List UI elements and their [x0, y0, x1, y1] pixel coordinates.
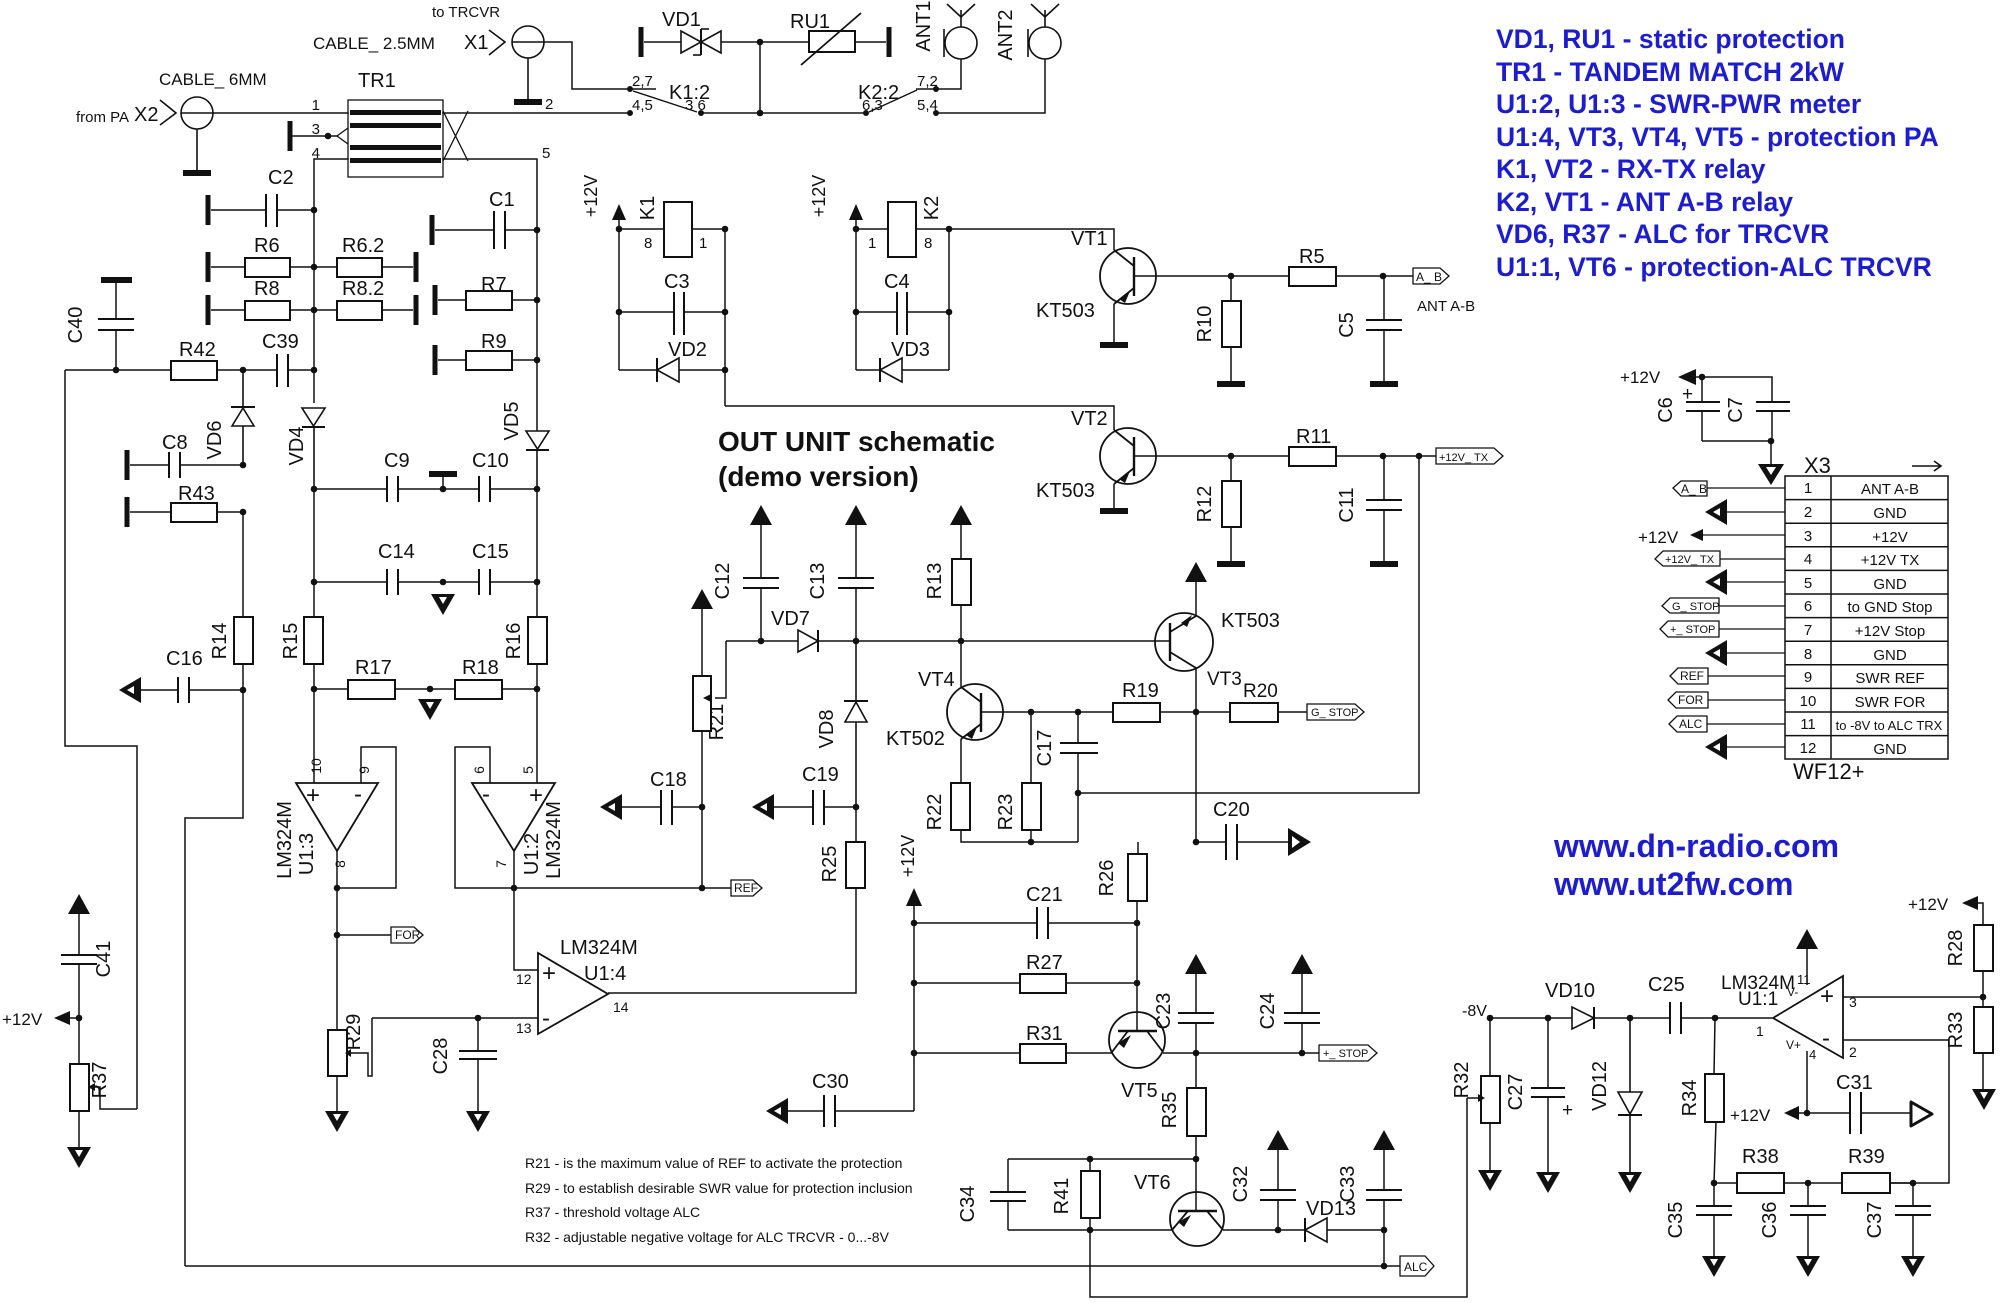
wire left rail down [65, 370, 137, 1109]
svg-text:U1:2: U1:2 [521, 833, 543, 875]
wire VT6 emitter to R32 wiper [1090, 1098, 1467, 1297]
svg-text:+_ STOP: +_ STOP [1670, 624, 1715, 636]
svg-text:SWR FOR: SWR FOR [1855, 694, 1926, 711]
wire pin 4 down [1806, 1051, 1808, 1113]
svg-text:C19: C19 [802, 764, 839, 786]
svg-text:9: 9 [356, 766, 372, 774]
svg-text:R26: R26 [1096, 860, 1118, 897]
svg-text:8: 8 [1804, 646, 1812, 663]
svg-text:C12: C12 [712, 563, 734, 600]
svg-text:U1:3: U1:3 [296, 833, 318, 875]
svg-text:R16: R16 [503, 623, 525, 660]
svg-text:R13: R13 [924, 563, 946, 600]
svg-text:to TRCVR: to TRCVR [432, 4, 500, 21]
svg-text:R25: R25 [819, 846, 841, 883]
svg-text:7: 7 [1804, 622, 1812, 639]
wire bottom ALC line [185, 1265, 1400, 1267]
svg-text:CABLE_ 6MM: CABLE_ 6MM [159, 70, 267, 89]
svg-text:KT503: KT503 [1221, 610, 1280, 632]
svg-text:R34: R34 [1679, 1080, 1701, 1117]
svg-text:R10: R10 [1194, 306, 1216, 343]
svg-text:R39: R39 [1848, 1146, 1885, 1168]
grounded stub between C9 C10 [429, 471, 457, 477]
svg-text:-: - [354, 781, 362, 808]
svg-text:+12V: +12V [809, 175, 829, 218]
svg-text:14: 14 [613, 999, 629, 1015]
node TR1 pin3 [325, 133, 332, 140]
flag G_STOP at X3 [1662, 598, 1719, 613]
svg-text:VD12: VD12 [1589, 1061, 1611, 1111]
flag FOR at X3 [1668, 692, 1708, 708]
wire pin2 feedback [1843, 1040, 1949, 1183]
svg-text:C2: C2 [268, 167, 294, 189]
output arrow right of C31 [1911, 1102, 1932, 1126]
wire pin4 rail down [313, 210, 315, 403]
svg-text:C40: C40 [65, 307, 87, 344]
wire X2 to TR1 pin1 [213, 112, 348, 114]
svg-text:ANT A-B: ANT A-B [1861, 481, 1919, 498]
flag ALC [1400, 1256, 1434, 1276]
svg-text:9: 9 [1804, 669, 1812, 686]
svg-text:V-: V- [1787, 985, 1798, 999]
main comparator line [726, 640, 798, 642]
flag REF [731, 880, 762, 896]
svg-text:C15: C15 [472, 541, 509, 563]
wire TR1 pin4 down rail [314, 159, 348, 210]
svg-text:to GND Stop: to GND Stop [1847, 599, 1932, 616]
ground arrow X3 pin12 [1705, 734, 1727, 760]
flag ALC at X3 [1669, 716, 1707, 732]
svg-text:R19: R19 [1122, 680, 1159, 702]
svg-text:TR1: TR1 [358, 70, 396, 92]
svg-text:www.ut2fw.com: www.ut2fw.com [1553, 866, 1793, 902]
svg-text:C30: C30 [812, 1071, 849, 1093]
svg-text:C25: C25 [1648, 974, 1685, 996]
ground arrow below R32 [1478, 1170, 1502, 1191]
svg-text:A_ B: A_ B [1681, 482, 1707, 496]
svg-text:R37 - threshold voltage ALC: R37 - threshold voltage ALC [525, 1204, 700, 1220]
svg-text:VT4: VT4 [918, 669, 955, 691]
flag +_STOP [1319, 1045, 1377, 1061]
power arrow at pin 11 [1796, 929, 1818, 949]
svg-text:2,7: 2,7 [632, 73, 653, 90]
wire rail R43 to R14 [242, 512, 244, 617]
flag FOR [334, 932, 341, 939]
ground arrow below C28 [466, 1111, 490, 1132]
svg-text:+12V: +12V [1872, 529, 1907, 546]
svg-text:12: 12 [1800, 740, 1817, 757]
svg-text:R8.2: R8.2 [342, 278, 384, 300]
ground arrow below R29 [325, 1111, 349, 1132]
svg-text:R42: R42 [179, 339, 216, 361]
svg-text:+12V: +12V [1908, 895, 1949, 914]
svg-text:+: + [542, 960, 556, 987]
svg-text:4,5: 4,5 [632, 97, 653, 114]
svg-text:C41: C41 [93, 941, 115, 978]
svg-text:3: 3 [312, 121, 320, 138]
svg-text:KT502: KT502 [886, 728, 945, 750]
svg-text:4: 4 [1809, 1047, 1816, 1062]
svg-text:8: 8 [644, 235, 652, 252]
svg-text:5: 5 [542, 145, 550, 162]
wire VT3 node down to C20 [1195, 712, 1197, 842]
ground arrow above X3 [1758, 464, 1784, 485]
flag REF at X3 [1670, 668, 1708, 684]
svg-text:X1: X1 [464, 32, 488, 54]
wire -8V line [1490, 1017, 1572, 1019]
svg-text:C7: C7 [1725, 397, 1747, 423]
svg-text:KT503: KT503 [1036, 300, 1095, 322]
flag +_STOP at X3 [1660, 621, 1719, 637]
svg-text:C23: C23 [1153, 993, 1175, 1030]
svg-text:C16: C16 [166, 648, 203, 670]
svg-text:VD2: VD2 [668, 339, 707, 361]
svg-text:+12V: +12V [1620, 368, 1661, 387]
wire K1 node to VT2 [725, 406, 1114, 430]
svg-text:10: 10 [1800, 693, 1817, 710]
svg-text:+12V: +12V [1638, 528, 1679, 547]
svg-text:C6: C6 [1655, 397, 1677, 423]
svg-text:R6: R6 [254, 235, 280, 257]
svg-text:R38: R38 [1742, 1146, 1779, 1168]
svg-text:R43: R43 [178, 483, 215, 505]
svg-text:R32 - adjustable negative volt: R32 - adjustable negative voltage for AL… [525, 1229, 890, 1245]
svg-text:C10: C10 [472, 450, 509, 472]
svg-text:+: + [1562, 1100, 1573, 1121]
svg-text:LM324M: LM324M [274, 801, 296, 879]
svg-text:VT1: VT1 [1071, 228, 1108, 250]
svg-text:R8: R8 [254, 278, 280, 300]
svg-text:C8: C8 [162, 432, 188, 454]
svg-text:ANT1: ANT1 [913, 0, 935, 51]
svg-text:C32: C32 [1230, 1166, 1252, 1203]
svg-text:R12: R12 [1194, 486, 1216, 523]
svg-text:5: 5 [520, 766, 536, 774]
ground arrow X3 pin2 [1705, 499, 1727, 525]
svg-text:R11: R11 [1296, 426, 1331, 448]
svg-text:VD4: VD4 [286, 427, 308, 466]
svg-text:+12V: +12V [581, 175, 601, 218]
svg-text:-8V: -8V [1462, 1003, 1487, 1020]
svg-text:C39: C39 [262, 331, 299, 353]
wire R14 rail to bottom [185, 690, 243, 1266]
svg-text:ANT A-B: ANT A-B [1417, 298, 1475, 315]
svg-text:+12V: +12V [2, 1010, 43, 1029]
svg-text:C28: C28 [430, 1038, 452, 1075]
svg-text:VD7: VD7 [771, 608, 810, 630]
wire K1:2 to K2:2 [701, 112, 866, 114]
svg-text:R14: R14 [209, 623, 231, 660]
svg-text:R21 - is the maximum value of: R21 - is the maximum value of REF to act… [525, 1155, 902, 1171]
svg-text:VD5: VD5 [501, 402, 523, 441]
svg-text:VD1, RU1 - static protection: VD1, RU1 - static protection [1496, 24, 1845, 54]
svg-text:A_ B: A_ B [1416, 270, 1442, 284]
svg-text:1: 1 [699, 235, 707, 252]
svg-text:R29 - to establish desirable S: R29 - to establish desirable SWR value f… [525, 1180, 913, 1196]
svg-text:6: 6 [471, 766, 487, 774]
ground at VT1 [1100, 342, 1128, 348]
wire VD1 node down [759, 42, 761, 113]
svg-text:R31: R31 [1026, 1023, 1063, 1045]
svg-text:C9: C9 [384, 450, 410, 472]
svg-text:(demo version): (demo version) [718, 461, 919, 492]
power arrow above C41 [68, 894, 90, 914]
svg-text:K1: K1 [637, 196, 659, 220]
svg-text:2: 2 [1849, 1044, 1857, 1060]
wire U1:2 out to pin12 [372, 888, 538, 1018]
svg-text:U1:4, VT3, VT4, VT5 - protecti: U1:4, VT3, VT4, VT5 - protection PA [1496, 122, 1939, 152]
svg-text:R18: R18 [462, 657, 499, 679]
svg-text:KT503: KT503 [1036, 480, 1095, 502]
wire VT2 base [1156, 455, 1289, 457]
svg-text:VT3: VT3 [1207, 669, 1242, 690]
svg-text:+: + [1820, 983, 1834, 1010]
connector X1 [489, 26, 544, 99]
svg-text:VD10: VD10 [1545, 980, 1595, 1002]
svg-text:1: 1 [1756, 1023, 1764, 1039]
svg-text:C17: C17 [1034, 730, 1056, 767]
flag +12V_TX [1436, 448, 1503, 464]
svg-text:VT5: VT5 [1121, 1080, 1158, 1102]
svg-text:C27: C27 [1505, 1074, 1527, 1111]
ground arrow below R33 [1972, 1089, 1996, 1110]
ground at X1 [514, 99, 542, 105]
notes text [525, 1155, 913, 1245]
svg-text:R28: R28 [1945, 930, 1967, 967]
svg-text:C34: C34 [957, 1186, 979, 1223]
svg-text:+: + [529, 782, 543, 809]
svg-text:+12V_ TX: +12V_ TX [1665, 554, 1715, 566]
svg-text:C11: C11 [1336, 487, 1358, 522]
svg-text:C20: C20 [1213, 799, 1250, 821]
svg-text:GND: GND [1873, 576, 1907, 593]
svg-text:REF: REF [734, 881, 758, 895]
svg-text:1: 1 [312, 97, 320, 114]
svg-text:VT6: VT6 [1134, 1172, 1171, 1194]
svg-text:+12V TX: +12V TX [1861, 552, 1920, 569]
connector X2 [160, 97, 213, 170]
svg-text:LM324M: LM324M [543, 801, 565, 879]
svg-text:1: 1 [868, 235, 876, 252]
svg-text:C5: C5 [1336, 312, 1358, 338]
svg-text:K2, VT1 - ANT A-B relay: K2, VT1 - ANT A-B relay [1496, 187, 1793, 217]
svg-text:C4: C4 [884, 271, 910, 293]
flag +12V_TX at X3 [1655, 551, 1720, 566]
svg-text:from PA: from PA [76, 109, 129, 126]
ground arrow below R17-R18 node [418, 699, 442, 720]
svg-text:V+: V+ [1786, 1038, 1801, 1052]
svg-text:TR1 - TANDEM MATCH 2kW: TR1 - TANDEM MATCH 2kW [1496, 57, 1844, 87]
svg-text:6: 6 [1804, 598, 1812, 615]
flag A_B [1413, 268, 1449, 284]
ground arrow X3 pin8 [1705, 640, 1727, 666]
svg-text:+12V: +12V [1730, 1106, 1771, 1125]
ground arrow X3 pin5 [1705, 569, 1727, 595]
svg-text:C31: C31 [1836, 1072, 1873, 1094]
svg-text:C13: C13 [807, 563, 829, 600]
svg-text:GND: GND [1873, 647, 1907, 664]
svg-text:R41: R41 [1051, 1178, 1073, 1215]
svg-text:to -8V to ALC TRX: to -8V to ALC TRX [1836, 718, 1943, 733]
svg-text:C35: C35 [1665, 1202, 1687, 1239]
svg-text:+12V: +12V [898, 835, 918, 878]
svg-text:VD1: VD1 [662, 9, 701, 31]
svg-text:FOR: FOR [395, 928, 421, 942]
svg-text:VD6: VD6 [204, 421, 226, 460]
svg-text:+12V Stop: +12V Stop [1855, 623, 1925, 640]
wire K2 node to VT1 [949, 229, 1114, 250]
flag A_B at X3 [1673, 481, 1707, 496]
output arrow right of C20 [1288, 828, 1311, 856]
svg-text:FOR: FOR [1678, 693, 1704, 707]
svg-text:R23: R23 [995, 794, 1017, 831]
svg-text:WF12+: WF12+ [1793, 759, 1865, 784]
svg-text:K2: K2 [921, 196, 943, 220]
svg-text:7: 7 [493, 860, 509, 868]
blue legend text [1496, 24, 1939, 282]
svg-text:C24: C24 [1257, 993, 1279, 1030]
svg-text:4: 4 [312, 145, 320, 162]
svg-text:U1:2, U1:3 - SWR-PWR meter: U1:2, U1:3 - SWR-PWR meter [1496, 89, 1861, 119]
open terminal at TR1 pin3 [288, 121, 293, 151]
svg-text:VD3: VD3 [891, 339, 930, 361]
svg-text:3: 3 [1804, 528, 1812, 545]
svg-text:R22: R22 [924, 794, 946, 831]
svg-text:R6.2: R6.2 [342, 235, 384, 257]
wire TR1 pin2 to K1:2 [443, 112, 630, 114]
svg-text:VD6, R37 - ALC for TRCVR: VD6, R37 - ALC for TRCVR [1496, 219, 1829, 249]
svg-text:G_ STOP: G_ STOP [1672, 601, 1719, 613]
wire K2:2 to ANT1 [936, 59, 961, 89]
svg-text:OUT UNIT schematic: OUT UNIT schematic [718, 426, 995, 457]
svg-text:C37: C37 [1864, 1202, 1886, 1239]
svg-text:4: 4 [1804, 551, 1812, 568]
wires VT6 row [1008, 1229, 1305, 1231]
svg-text:VT2: VT2 [1071, 408, 1108, 430]
svg-text:R35: R35 [1159, 1092, 1181, 1129]
svg-text:-: - [482, 781, 490, 808]
svg-text:C36: C36 [1759, 1202, 1781, 1239]
svg-text:VD8: VD8 [816, 710, 838, 749]
svg-text:2: 2 [545, 96, 553, 113]
wire TR1 pin5 to C1 rail [443, 159, 537, 230]
svg-text:R32: R32 [1451, 1062, 1473, 1099]
svg-text:LM324M: LM324M [560, 937, 638, 959]
svg-text:G_ STOP: G_ STOP [1311, 707, 1358, 719]
svg-text:ALC: ALC [1404, 1260, 1428, 1274]
wire TR1 pin3 [293, 135, 337, 137]
svg-text:U1:1: U1:1 [1738, 989, 1778, 1010]
svg-text:R9: R9 [481, 331, 507, 353]
svg-text:X3: X3 [1804, 453, 1831, 478]
svg-text:R5: R5 [1299, 246, 1325, 268]
svg-text:-: - [542, 1005, 550, 1032]
svg-text:C21: C21 [1026, 884, 1063, 906]
svg-text:8: 8 [332, 860, 348, 868]
svg-text:5: 5 [1804, 575, 1812, 592]
svg-text:CABLE_ 2.5MM: CABLE_ 2.5MM [313, 34, 435, 53]
svg-text:R17: R17 [355, 657, 392, 679]
svg-text:U1:1, VT6 - protection-ALC TRC: U1:1, VT6 - protection-ALC TRCVR [1496, 252, 1932, 282]
svg-text:1: 1 [1804, 480, 1812, 497]
ground arrow below R37 [67, 1147, 91, 1168]
wire X1 to K1:2 contact 2,7 [544, 42, 630, 89]
svg-text:R27: R27 [1026, 952, 1063, 974]
svg-text:R20: R20 [1243, 681, 1278, 702]
svg-text:12: 12 [516, 971, 532, 987]
wire right rail C1 to VD5 [536, 230, 538, 431]
svg-text:ALC: ALC [1679, 717, 1703, 731]
wire K2:2 to ANT2 [936, 59, 1045, 113]
svg-text:X2: X2 [134, 104, 158, 126]
svg-text:C18: C18 [650, 769, 687, 791]
svg-text:+: + [306, 782, 320, 809]
ground at VT2 [1100, 508, 1128, 514]
svg-text:2: 2 [1804, 504, 1812, 521]
svg-text:13: 13 [516, 1020, 532, 1036]
wire VT1 base [1156, 275, 1289, 277]
flag G_STOP [1307, 704, 1364, 720]
svg-text:www.dn-radio.com: www.dn-radio.com [1553, 828, 1839, 864]
svg-text:C14: C14 [378, 541, 415, 563]
svg-text:11: 11 [1800, 716, 1816, 733]
svg-text:C3: C3 [664, 271, 690, 293]
svg-text:U1:4: U1:4 [584, 963, 626, 985]
svg-text:K1, VT2 - RX-TX relay: K1, VT2 - RX-TX relay [1496, 154, 1766, 184]
svg-text:GND: GND [1873, 505, 1907, 522]
svg-text:RU1: RU1 [790, 11, 830, 33]
wire +12V_TX down loop [1078, 456, 1419, 793]
svg-text:C33: C33 [1337, 1166, 1359, 1203]
svg-text:R15: R15 [280, 623, 302, 660]
svg-text:10: 10 [308, 758, 324, 774]
svg-text:GND: GND [1873, 741, 1907, 758]
svg-text:11: 11 [1797, 972, 1811, 987]
wire pin3 [1843, 996, 1983, 998]
svg-text:8: 8 [924, 235, 932, 252]
svg-text:ANT2: ANT2 [995, 9, 1017, 60]
svg-text:+12V_ TX: +12V_ TX [1439, 452, 1489, 464]
svg-text:SWR REF: SWR REF [1855, 670, 1924, 687]
ground at X2 [183, 170, 211, 176]
svg-text:-: - [1822, 1025, 1830, 1052]
svg-text:+_ STOP: +_ STOP [1323, 1048, 1368, 1060]
svg-text:C1: C1 [489, 189, 515, 211]
ground arrow below C14-C15 node [431, 594, 455, 615]
svg-text:REF: REF [1680, 669, 1704, 683]
